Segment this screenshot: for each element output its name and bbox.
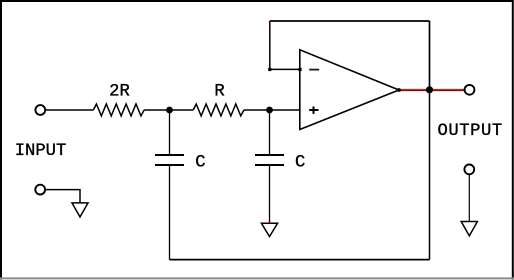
wire output reference to ground (468, 174, 470, 222)
red artifact at capacitor C2 ground junction (269, 222, 271, 224)
red artifact at feedback corner (269, 21, 271, 23)
ground symbol at capacitor C2 (261, 223, 277, 236)
op-amp U1 (300, 50, 399, 130)
ground symbol at output reference (461, 222, 477, 236)
wire resistor R to node B (244, 109, 300, 111)
wire input reference to ground (45, 190, 80, 203)
junction at op-amp apex (397, 88, 401, 92)
wire feedback: output node up to top rail (429, 21, 431, 90)
svg-text:2R: 2R (109, 83, 130, 102)
wire bottom feedback rail (170, 259, 430, 261)
output terminal circle (465, 85, 475, 95)
wire op-amp output (red) (399, 89, 465, 90)
wire node A down to capacitor C1 (169, 110, 171, 155)
wire resistor 2R to node A (144, 109, 193, 111)
ground symbol at input reference (72, 203, 88, 217)
svg-text:R: R (214, 83, 224, 102)
svg-text:C: C (295, 153, 305, 172)
wire output node down to bottom rail (429, 90, 431, 260)
input reference terminal circle (35, 185, 45, 195)
node A junction dot (166, 107, 173, 114)
input terminal circle (35, 105, 45, 115)
svg-text:C: C (195, 153, 205, 172)
node B junction dot (266, 107, 273, 114)
capacitor C1 (155, 155, 184, 165)
node C output junction dot (426, 86, 433, 93)
resistor R (193, 104, 244, 116)
junction square at inverting input pin (298, 68, 301, 71)
wire input terminal to resistor 2R (45, 109, 93, 111)
wire feedback top rail (270, 20, 430, 22)
svg-text:INPUT: INPUT (15, 142, 67, 161)
output reference terminal circle (464, 165, 474, 175)
wire feedback left drop to inverting input (269, 21, 271, 69)
capacitor C2 (255, 155, 284, 165)
svg-text:OUTPUT: OUTPUT (438, 122, 503, 141)
wire capacitor C1 to bottom feedback rail (169, 165, 171, 260)
junction square at feedback corner (268, 68, 271, 71)
wire feedback into op-amp inverting input (270, 68, 301, 70)
wire node B down to capacitor C2 (269, 110, 271, 155)
wire capacitor C2 to ground (269, 165, 271, 223)
resistor 2R (93, 104, 144, 116)
